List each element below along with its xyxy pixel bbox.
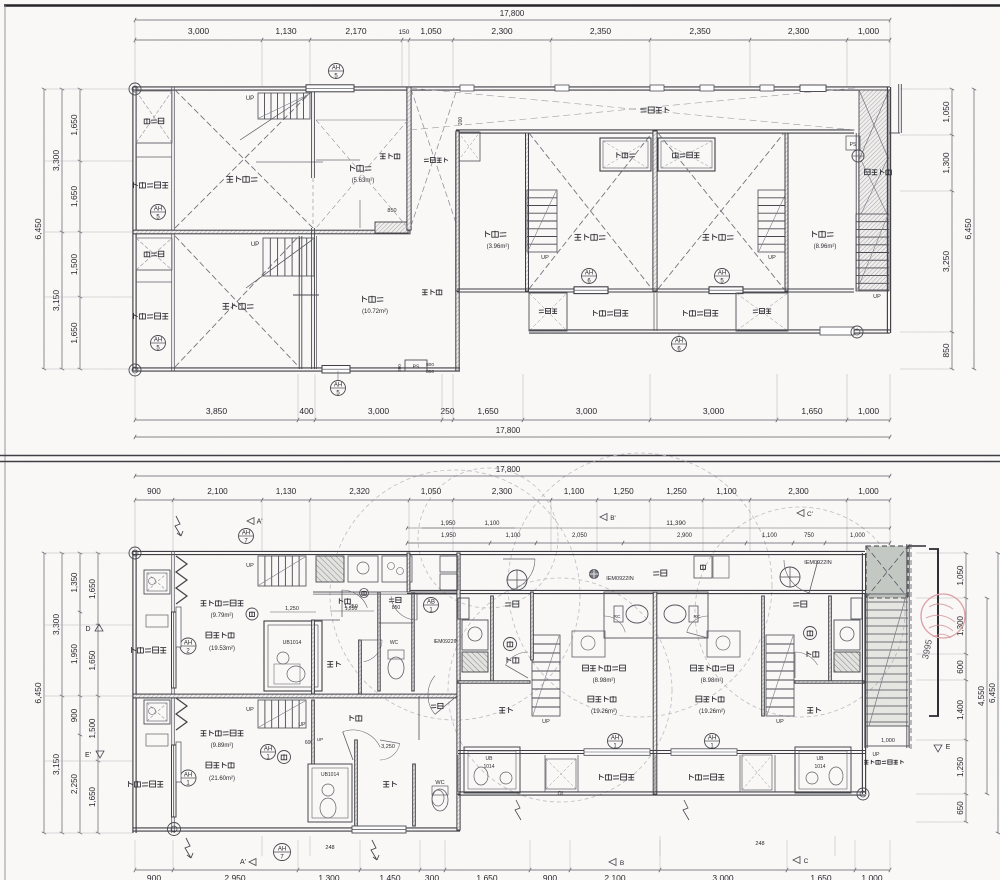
- top plan: small closet box in loft upper: [375, 222, 408, 233]
- top plan: corridor strip 廊下上部: [456, 129, 854, 131]
- bottom plan: balcony front wall right units: [458, 750, 865, 752]
- bottom plan: washer box lower balcony: [144, 700, 170, 724]
- bottom plan: corner top-left: [129, 547, 141, 559]
- top plan: stairwell strip top-right: [859, 90, 889, 290]
- bottom plan: AD marker at unit101 door: [780, 567, 800, 587]
- bottom plan: electrical squiggle bottom-left: [371, 840, 379, 860]
- bottom plan: marker A pennant top: [247, 518, 254, 525]
- top plan: room 洋室上部 left unit: [529, 133, 652, 289]
- top plan: balcony lower-left label: [133, 313, 135, 319]
- bottom plan: unit 103 heat symbol: [360, 589, 369, 598]
- bottom plan: AD marker at unit102 door: [507, 570, 527, 590]
- bottom plan: red approval stamp: [921, 594, 965, 638]
- bottom plan: corridor wall below entrances: [407, 589, 865, 591]
- top plan: divider wall left strip: [133, 230, 175, 233]
- top plan: right block left wall: [456, 131, 459, 291]
- bottom plan: extra interior lines left block: [313, 591, 379, 593]
- bottom plan: squiggle below balcony right: [515, 800, 521, 820]
- top plan: left dimension chains: [43, 89, 45, 369]
- top plan: small box at top of void zone: [458, 132, 480, 161]
- bottom plan: small box right balcony corner: [742, 755, 772, 790]
- top plan: corner column bottom-right: [851, 326, 863, 338]
- top plan: loft upper partial walls: [316, 159, 360, 161]
- bottom plan: shelf below washer lower: [146, 734, 168, 746]
- bottom plan: unit 101 WC room: [656, 592, 708, 638]
- top plan: stairs lower-left: [263, 238, 314, 276]
- bottom plan: unit 103 kitchen label: [338, 598, 340, 604]
- bottom plan: balcony labels right units: [599, 774, 601, 780]
- top plan: balcony rail verticals: [528, 293, 530, 331]
- bottom plan: window bar on inner wall lower: [172, 745, 177, 817]
- bottom plan: unit 105 UB1014 bath pod: [308, 764, 352, 822]
- bottom plan: unit 103 kitchen boxes: [316, 556, 344, 582]
- bottom plan: unit 101 side walls: [762, 596, 765, 716]
- top plan: top wall window: [306, 85, 354, 92]
- top plan: left balcony outer wall: [132, 87, 134, 371]
- top plan: top dimension chain: [135, 39, 890, 41]
- top plan: corner column top-left: [129, 83, 141, 95]
- bottom plan: overall top dimension 17,800: [135, 475, 890, 477]
- top plan: balcony upper-left label: [133, 182, 135, 188]
- top plan: wall right of loft upper: [407, 87, 411, 230]
- top plan: room upper-left 洋室上部: [175, 90, 313, 228]
- bottom plan: balcony label upper-left: [131, 647, 133, 653]
- top plan: balcony front wall of right block: [457, 288, 854, 290]
- bottom plan: marker AH1 left-mid: [261, 745, 276, 760]
- top plan: marker AH6 in left unit: [582, 269, 597, 284]
- top plan: overall width dimension 17,800: [135, 19, 890, 21]
- bottom plan: right outer wall: [861, 553, 863, 794]
- top plan: shelf line under room upper-left: [256, 161, 323, 163]
- bottom plan: secondary dimension chain: [407, 542, 890, 544]
- top plan: corridor top wall column stubs: [460, 85, 474, 91]
- top plan: marker PS right: [846, 136, 860, 150]
- bottom plan: unit 105 kitchen 台所: [349, 715, 351, 721]
- bottom plan: corridor label 廊下: [653, 571, 659, 573]
- bottom plan: unit 101 room labels: [691, 665, 697, 671]
- bottom plan: unit 101 entrance door: [784, 560, 809, 593]
- page left border: [4, 5, 6, 880]
- top plan: room lower-left 洋室上部: [175, 236, 299, 367]
- bottom plan: unit 101 stairs: [766, 635, 794, 716]
- top plan: thin floor edge line under upper stairs: [316, 119, 408, 121]
- bottom plan: unit 105 wall extension: [312, 700, 315, 764]
- bottom plan: marker AH2 left upper: [180, 638, 196, 654]
- bottom plan: unit 105 WC toilet: [432, 789, 448, 811]
- bottom plan: excluded-area note: [864, 759, 868, 761]
- bottom plan: unit 102 washbasin below WC: [572, 631, 605, 657]
- bottom plan: kitchen wall column x407: [407, 553, 410, 592]
- page separator between the two scanned sheets: [0, 455, 1000, 457]
- bottom plan: unit 102 kitchen: [506, 657, 508, 663]
- top plan: closet 0.上部 lower-left: [136, 238, 172, 270]
- bottom plan: marker AH7 top: [239, 529, 254, 544]
- bottom plan: unit 103/105 divider wall: [133, 694, 460, 698]
- top plan: 床無L label upper loft: [380, 153, 386, 155]
- bottom plan: marker AH1 left lower: [180, 770, 196, 786]
- bottom plan: unit 102 bath pod UB1014: [464, 747, 520, 793]
- bottom plan: unit 102 room labels: [583, 665, 589, 671]
- bottom plan: unit 103 UB1014 bath pod: [264, 621, 322, 691]
- top plan: right block bottom wall: [529, 329, 890, 331]
- top plan: loft 3.96 room: [485, 231, 487, 237]
- bottom plan: unit 102 dressing 脱衣: [499, 707, 505, 709]
- bottom plan: balcony rails right units: [457, 755, 459, 792]
- top plan: loft lower 10.72 label: [362, 296, 364, 302]
- top plan: outer right wall extension: [898, 84, 900, 133]
- bottom plan: left dimension chains: [43, 553, 45, 833]
- top plan: window in bottom wall: [322, 366, 350, 374]
- bottom plan: unit 105 kitchen arc: [343, 730, 381, 747]
- top plan: right stairwell 階段上部: [865, 169, 871, 175]
- page top rule: [4, 4, 1000, 7]
- top plan: window box bottom right: [820, 327, 854, 335]
- bottom plan: corner bottom-right: [857, 788, 869, 800]
- bottom plan: shelf below washer upper: [146, 615, 168, 627]
- top plan: closet boxes WC上部 押入上部: [600, 138, 651, 171]
- bottom plan: unit 101 kitchen 台所: [806, 651, 808, 657]
- top plan: wall left-unit room divider: [526, 133, 529, 291]
- bottom plan: marker C arrow top: [797, 510, 804, 517]
- bottom plan: OL box on balcony left: [546, 759, 576, 789]
- top plan: right dimension chains: [951, 89, 953, 369]
- top plan: PS box bottom of left block: [405, 360, 427, 371]
- top plan: loft 8.96 room: [812, 231, 814, 237]
- bottom plan: balcony label lower-left: [128, 781, 130, 787]
- bottom plan: bottom dimension chain (cut off): [135, 869, 890, 871]
- top plan: right edge wall of left block: [456, 133, 459, 371]
- top plan: CL上部 left box: [529, 293, 567, 331]
- bottom plan: unit 103 hall 玄関: [378, 592, 380, 691]
- bottom plan: unit 102 entrance door: [511, 559, 535, 590]
- bottom plan: unit 101 dressing 脱衣: [807, 707, 813, 709]
- bottom plan: unit 102 stairs: [532, 635, 560, 716]
- top plan: corner column bottom-left: [129, 364, 141, 376]
- top plan: stairs right unit: [758, 190, 788, 252]
- top plan: balcony right of right block: [683, 310, 685, 316]
- bottom plan: marker C bottom: [793, 857, 800, 864]
- top plan: wall right-unit / loft divider: [785, 133, 788, 291]
- top plan: outer top wall: [133, 86, 410, 88]
- top plan: room 洋室上部 right unit: [658, 133, 784, 289]
- bottom plan: balcony strip bottom wall right units: [458, 791, 865, 793]
- top plan: marker AH5 below left block: [331, 381, 346, 396]
- bottom plan: stair shaft bottom landing: [865, 726, 909, 746]
- top plan: central unit divider wall: [653, 131, 657, 291]
- bottom plan: left outer balcony wall: [132, 551, 134, 833]
- bottom plan: washer box upper balcony: [144, 570, 170, 594]
- top plan: mid horizontal wall of left block: [133, 230, 410, 234]
- bottom plan: bottom wall window: [352, 826, 406, 833]
- bottom plan: right dimension chains: [965, 553, 967, 822]
- top plan: marker AH5 left lower: [151, 336, 166, 351]
- bottom plan: unit 105 stairs UP: [258, 700, 306, 728]
- top plan: marker AH5 in right unit: [715, 269, 730, 284]
- bottom plan: heavy bracket stroke: [937, 549, 939, 716]
- top plan: right block outer right wall: [886, 87, 888, 333]
- bottom plan: unit 103 interior walls: [312, 620, 315, 694]
- top plan: marker AH5 above corridor: [329, 64, 344, 79]
- top plan: vertical wall between rooms and loft: [311, 90, 313, 178]
- top plan: bottom wall of left block: [133, 367, 460, 369]
- bottom plan: outer top wall: [133, 550, 865, 552]
- top plan: balcony inner wall: [171, 87, 173, 371]
- bottom plan: window upper-left inner wall: [176, 607, 181, 647]
- bottom plan: markers AH1 in units: [608, 734, 623, 749]
- top plan: closet 0.上部 upper-left: [136, 91, 172, 143]
- bottom plan: unit 101 washbasin below WC: [707, 631, 740, 657]
- bottom plan: left unit boundary wall: [457, 553, 460, 794]
- bottom plan: divider wall left strip bottom plan: [133, 694, 175, 697]
- bottom plan: stair shaft dashed right boundary: [910, 544, 912, 750]
- bottom plan: unit 102 side wall: [531, 592, 534, 660]
- top plan: marker AH6 below right block: [672, 337, 687, 352]
- bottom plan: unit 103 room labels: [201, 600, 207, 602]
- top plan: loft upper diagonals: [316, 120, 408, 228]
- scan noise overlay: [0, 0, 1, 1]
- top plan: CL上部 right box: [736, 293, 788, 331]
- bottom plan: marker AB1 near 103 entry: [424, 598, 439, 613]
- bottom plan: corridor north small boxes: [440, 556, 458, 572]
- top plan: bottom overall dimension 17,800: [135, 436, 890, 438]
- bottom plan: unit 101 bath pod UB1014: [795, 747, 851, 793]
- bottom plan: unit 103 stairs UP: [258, 556, 306, 586]
- bottom plan: corner bottom-left: [168, 823, 181, 836]
- bottom plan: unit 102 WC room: [604, 592, 656, 638]
- top plan: loft upper 5.63 label: [350, 165, 352, 171]
- top plan: corridor window bars right: [800, 85, 826, 92]
- bottom plan: window bar on inner wall upper: [172, 612, 177, 688]
- bottom plan: central divider wall units 101/102: [653, 592, 657, 794]
- bottom plan: unit 105 hall 玄関: [418, 696, 420, 740]
- bottom plan: heat marker near 1250: [246, 608, 258, 620]
- bottom plan: unit 105 dressing 脱衣: [383, 781, 389, 783]
- bottom plan: balcony inner wall: [171, 551, 173, 833]
- bottom plan: marker AH7 bottom left: [274, 844, 291, 861]
- top plan: stairs upper-left with UP: [258, 93, 310, 119]
- bottom plan: balcony windows right units: [584, 749, 650, 756]
- bottom plan: unit 105 interior walls: [355, 740, 358, 826]
- bottom plan: stair shaft right dark landing: [866, 546, 908, 598]
- bottom plan: marker B bottom: [609, 859, 616, 866]
- bottom plan: small wall box right of 101 hall: [851, 598, 862, 619]
- top plan: 床無L label upper: [422, 289, 428, 291]
- bottom plan: electrical squiggle top-left: [175, 516, 183, 536]
- bottom plan: stair shaft treads: [864, 594, 866, 748]
- bottom plan: guide crosses below plan: [261, 836, 263, 856]
- bottom plan: unit 105 room labels: [201, 730, 207, 732]
- top plan: bottom dimension chain: [135, 419, 890, 421]
- top plan: void zone with cross right of loft: [411, 89, 457, 226]
- top plan: balcony windows right block: [574, 287, 608, 294]
- bottom plan: secondary dimension 11,390: [407, 527, 890, 529]
- bottom plan: marker B arrow top: [600, 514, 607, 521]
- bottom plan: unit 103 kitchen door arc: [342, 590, 367, 608]
- top plan: marker AH5 left upper: [151, 205, 166, 220]
- bottom plan: intercom symbol and label IEM0922IN left: [590, 570, 599, 579]
- bottom plan: faint compass circles: [330, 470, 580, 720]
- top plan: marker circle right corridor end: [852, 150, 864, 162]
- bottom plan: zigzag break symbols on wall: [176, 556, 187, 604]
- bottom plan: unit 102 small wall box: [458, 598, 469, 619]
- bottom plan: bottom outer wall: [133, 827, 460, 829]
- top plan: stairs left unit of right block: [527, 190, 557, 252]
- bottom plan: heat symbol unit 105: [278, 751, 291, 764]
- bottom plan: heat symbols right units: [504, 638, 517, 651]
- top plan: balcony left of right block: [593, 310, 595, 316]
- bottom plan: top dimension chain: [135, 499, 890, 501]
- top plan: wall right of lower-left room: [298, 236, 300, 369]
- bottom plan: unit 103 dressing room 脱衣: [327, 661, 333, 663]
